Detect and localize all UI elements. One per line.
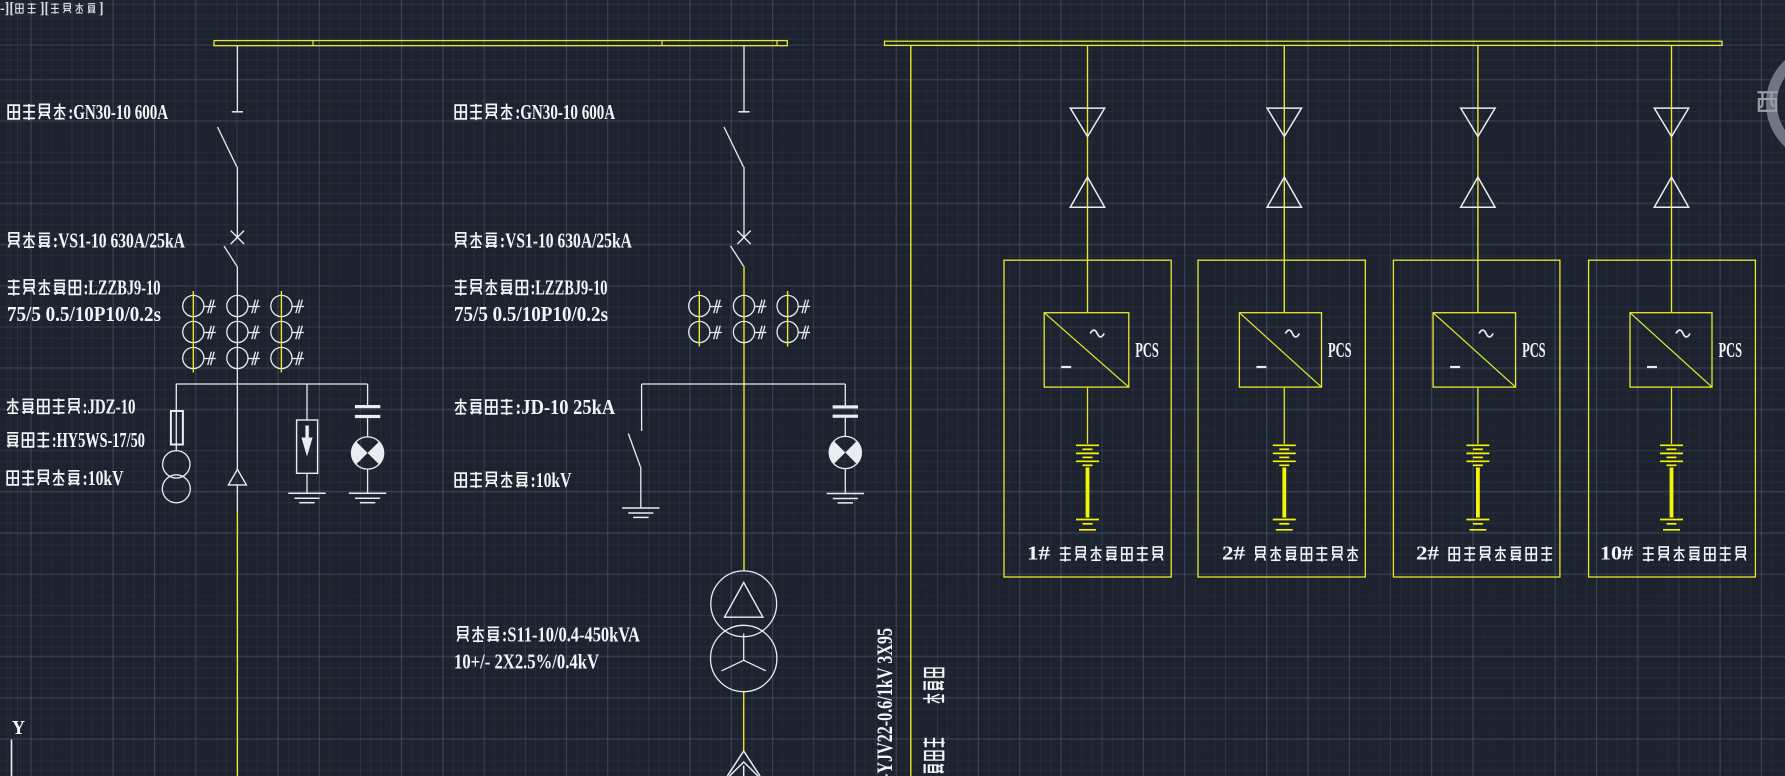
- disconnect switch QS2 GN30-10 600A (feeder2): [724, 112, 750, 238]
- svg-text:10+/- 2X2.5%/0.4kV: 10+/- 2X2.5%/0.4kV: [454, 650, 599, 674]
- disconnect blade below breaker (feeder1): [224, 246, 237, 266]
- label cabinet 4: 10# liquid-storage integrated cabinet: [1600, 544, 1746, 565]
- svg-text::LZZBJ9-10: :LZZBJ9-10: [531, 276, 608, 300]
- wire PCS branch 4 from busbar (yellow): [1671, 45, 1673, 312]
- cabinet enclosure box 4: [1589, 260, 1756, 577]
- svg-text:][: ][: [40, 0, 49, 17]
- ground of display (feeder2): [827, 494, 864, 503]
- label: CT ratio 75/5 0.5/10P10/0.2s (feeder2): [454, 302, 608, 326]
- label cabinet 1: 1# liquid-storage integrated cabinet: [1027, 544, 1163, 565]
- svg-text:PCS: PCS: [1328, 338, 1352, 362]
- live-line display indicator H1 10kV (feeder1): [351, 418, 383, 469]
- label: breaker VS1-10 630A/25kA (feeder1): [8, 229, 185, 253]
- svg-text:10#: 10#: [1600, 544, 1633, 565]
- disconnect blade below breaker (feeder2): [731, 246, 744, 266]
- svg-text::JDZ-10: :JDZ-10: [83, 395, 136, 419]
- label: transformer S11-10/0.4-450kVA: [457, 623, 640, 647]
- svg-text::GN30-10 600A: :GN30-10 600A: [515, 100, 616, 124]
- viewport label [top][2D wireframe]: [0, 0, 104, 17]
- wire PCS branch 2 from busbar (yellow): [1283, 45, 1285, 312]
- voltage transformer TV1 JDZ-10: [162, 451, 190, 503]
- svg-text:75/5 0.5/10P10/0.2s: 75/5 0.5/10P10/0.2s: [454, 302, 608, 326]
- wire feeder2 main (yellow) through CTs to transformer: [743, 266, 745, 570]
- wire feeder1 branch bus: [176, 383, 368, 385]
- label cabinet 3: 2# liquid-storage integrated cabinet: [1416, 544, 1552, 565]
- label cabinet 2: 2# liquid-storage integrated cabinet: [1222, 544, 1358, 565]
- label: CT ratio 75/5 0.5/10P10/0.2s (feeder1): [7, 302, 161, 326]
- cabinet enclosure box 2: [1198, 260, 1365, 577]
- svg-text::10kV: :10kV: [531, 468, 572, 492]
- svg-text::JD-10 25kA: :JD-10 25kA: [515, 395, 616, 419]
- disconnect switch QS1 GN30-10 600A (feeder1): [218, 112, 244, 238]
- label: isolator GN30-10 600A (feeder1): [8, 100, 169, 124]
- wire PCS branch 1 from busbar (yellow): [1087, 45, 1089, 312]
- svg-text:75/5 0.5/10P10/0.2s: 75/5 0.5/10P10/0.2s: [7, 302, 161, 326]
- svg-text:2#: 2#: [1416, 544, 1439, 565]
- label PCS 1: [1135, 338, 1159, 362]
- label PCS 4: [1719, 338, 1743, 362]
- wire feeder2 drop from busbar: [743, 46, 745, 112]
- battery stack 3: [1466, 388, 1489, 530]
- label: earthing switch JD-10 25kA: [455, 395, 616, 419]
- destination label: to liquid storage cabinets, 4 cables (vertical): [923, 668, 945, 776]
- wire display to ground (feeder1): [367, 469, 369, 493]
- label: live display 10kV (feeder2): [455, 468, 571, 492]
- delta winding symbol on feeder1 line: [228, 469, 246, 512]
- svg-text:PCS: PCS: [1719, 338, 1743, 362]
- label: isolator GN30-10 600A (feeder2): [455, 100, 616, 124]
- svg-text:Y: Y: [12, 717, 25, 739]
- battery stack 1: [1076, 388, 1099, 530]
- svg-text:PCS: PCS: [1522, 338, 1546, 362]
- current transformers TA1 LZZBJ9-10 75/5 (feeder1, 3x3): [183, 291, 304, 373]
- label: CT LZZBJ9-10 (feeder1): [8, 276, 161, 300]
- wire main cable riser to storage section (yellow): [910, 45, 912, 776]
- current transformers TA2 LZZBJ9-10 75/5 (feeder2, 2x3): [689, 291, 810, 347]
- PCS converter U1 (AC/DC): [1044, 313, 1129, 387]
- transformer T1 secondary winding (wye): [711, 625, 777, 691]
- svg-text::LZZBJ9-10: :LZZBJ9-10: [84, 276, 161, 300]
- wire feeder1 outgoing cable (yellow): [236, 513, 238, 776]
- plug-in connector symbol branch 2: [1267, 108, 1301, 207]
- plug-in connector symbol branch 4: [1654, 108, 1688, 207]
- label: arrester HY5WS-17/50: [7, 428, 145, 452]
- svg-text::VS1-10 630A/25kA: :VS1-10 630A/25kA: [53, 229, 186, 253]
- cable termination arrow at bottom: [727, 751, 760, 776]
- label: transformer tap 10+/- 2X2.5%/0.4kV: [454, 650, 599, 674]
- UCS icon Y axis: [12, 717, 26, 776]
- watermark ring with logo text (right edge): [1758, 50, 1785, 157]
- plug-in connector symbol branch 3: [1461, 108, 1495, 207]
- wire feeder2 branch bus: [642, 383, 846, 385]
- label: live display 10kV (feeder1): [7, 466, 123, 490]
- label: CT LZZBJ9-10 (feeder2): [455, 276, 608, 300]
- cable label -YJV22-0.6/1kV 3X95 (vertical): [872, 628, 897, 776]
- ground of arrester (feeder1): [288, 493, 325, 502]
- circuit breaker QF1 VS1-10 630A/25kA (feeder1): [231, 231, 244, 244]
- capacitor of live-line display (feeder2): [833, 384, 858, 418]
- wire feeder1 main down: [236, 384, 238, 469]
- live-line display indicator H2 10kV (feeder2): [829, 418, 861, 469]
- svg-text:1#: 1#: [1027, 544, 1050, 565]
- wire feeder1 drop from busbar: [236, 46, 238, 112]
- wire PCS branch 3 from busbar (yellow): [1477, 45, 1479, 312]
- capacitor of live-line display (feeder1): [355, 384, 380, 418]
- wire transformer LV outgoing (yellow): [743, 692, 745, 751]
- cabinet enclosure box 3: [1393, 260, 1560, 577]
- ground of earthing switch: [622, 508, 659, 517]
- fuse FU1 on PT branch: [171, 384, 183, 451]
- label: breaker VS1-10 630A/25kA (feeder2): [455, 229, 632, 253]
- ground of display (feeder1): [349, 493, 386, 502]
- svg-text:-][: -][: [0, 0, 14, 17]
- wire display to ground (feeder2): [844, 469, 846, 494]
- svg-text:-YJV22-0.6/1kV 3X95: -YJV22-0.6/1kV 3X95: [872, 628, 897, 776]
- busbar WB2 (energy storage section): [885, 41, 1723, 45]
- surge arrester F1 HY5WS-17/50: [297, 384, 318, 493]
- PCS converter U4 (AC/DC): [1630, 313, 1712, 387]
- cabinet enclosure box 1: [1004, 260, 1171, 577]
- svg-text:2#: 2#: [1222, 544, 1245, 565]
- PCS converter U2 (AC/DC): [1239, 313, 1321, 387]
- label PCS 2: [1328, 338, 1352, 362]
- svg-text::VS1-10 630A/25kA: :VS1-10 630A/25kA: [500, 229, 633, 253]
- busbar WB1 10kV (left section): [214, 41, 787, 46]
- earthing switch QE JD-10 25kA: [628, 384, 641, 508]
- svg-text::S11-10/0.4-450kVA: :S11-10/0.4-450kVA: [502, 623, 641, 647]
- svg-text::HY5WS-17/50: :HY5WS-17/50: [52, 428, 145, 452]
- circuit breaker QF2 VS1-10 630A/25kA (feeder2): [737, 231, 750, 244]
- wire feeder1 to CT group: [236, 266, 238, 384]
- label: PT JDZ-10: [7, 395, 136, 419]
- svg-text::10kV: :10kV: [83, 466, 124, 490]
- transformer T1 S11-10/0.4-450kVA primary winding (delta): [711, 571, 777, 637]
- plug-in connector symbol branch 1: [1070, 108, 1104, 207]
- svg-text::GN30-10 600A: :GN30-10 600A: [68, 100, 169, 124]
- svg-text:PCS: PCS: [1135, 338, 1159, 362]
- battery stack 4: [1660, 388, 1683, 530]
- PCS converter U3 (AC/DC): [1433, 313, 1516, 387]
- svg-text:]: ]: [99, 0, 104, 17]
- battery stack 2: [1273, 388, 1296, 530]
- label PCS 3: [1522, 338, 1546, 362]
